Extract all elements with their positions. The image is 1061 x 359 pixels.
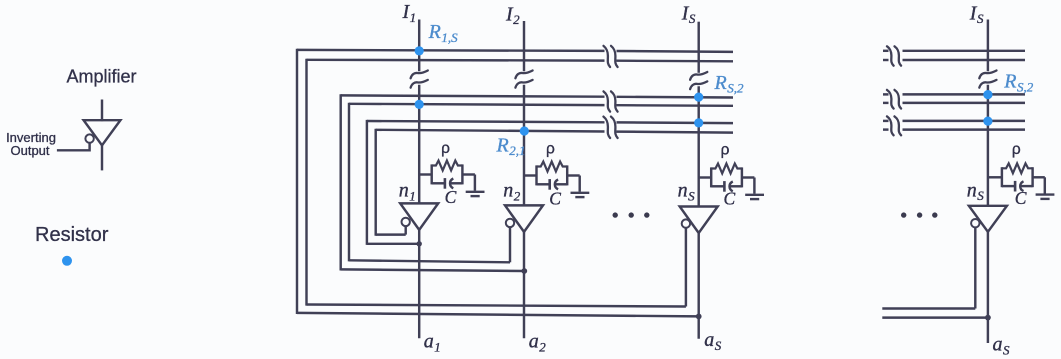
svg-text:Resistor: Resistor: [35, 224, 109, 246]
svg-text:C: C: [445, 187, 457, 207]
svg-text:Amplifier: Amplifier: [67, 67, 137, 87]
svg-text:ρ: ρ: [441, 140, 450, 157]
svg-text:C: C: [723, 188, 735, 208]
svg-text:Output: Output: [10, 143, 49, 158]
svg-text:ρ: ρ: [546, 141, 555, 158]
svg-text:C: C: [549, 189, 561, 209]
svg-text:ρ: ρ: [1012, 141, 1021, 158]
svg-text:C: C: [1015, 188, 1027, 208]
svg-text:ρ: ρ: [721, 142, 730, 159]
